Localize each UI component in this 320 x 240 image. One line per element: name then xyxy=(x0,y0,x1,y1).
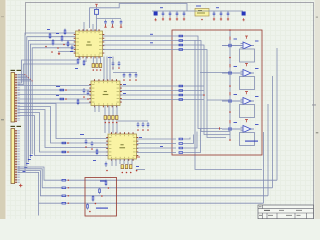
wire xyxy=(27,37,76,166)
connector bottom marker xyxy=(19,184,22,187)
junction xyxy=(229,111,231,113)
label xyxy=(30,155,33,156)
wire xyxy=(276,48,278,180)
ladder net label xyxy=(96,208,108,209)
wire xyxy=(152,10,243,12)
wire xyxy=(18,116,109,156)
capacitor C3 xyxy=(120,20,123,26)
ground xyxy=(169,17,171,20)
capacitor C8 xyxy=(213,11,216,16)
label xyxy=(123,84,126,85)
label xyxy=(136,157,140,158)
junction xyxy=(68,203,69,204)
label xyxy=(24,167,27,168)
op-amp U7 xyxy=(241,70,255,77)
op-amp U6 xyxy=(241,42,255,49)
wire xyxy=(109,57,111,81)
label xyxy=(150,42,153,43)
junction xyxy=(129,79,131,81)
label xyxy=(56,33,59,34)
sheet left margin strip xyxy=(0,0,6,219)
ground xyxy=(220,17,222,20)
frame tick right xyxy=(312,104,316,107)
junction xyxy=(229,85,231,87)
junction xyxy=(112,122,114,124)
ground xyxy=(183,17,185,20)
junction xyxy=(93,69,95,71)
resistor xyxy=(49,33,51,40)
wire xyxy=(120,85,204,87)
resistor xyxy=(62,179,66,181)
feedback loop wire xyxy=(240,77,255,90)
capacitor xyxy=(71,45,74,51)
connector J1 segment A xyxy=(11,73,17,123)
label xyxy=(75,68,78,69)
resistor xyxy=(179,85,183,87)
junction xyxy=(106,170,108,172)
ground xyxy=(213,17,215,20)
junction xyxy=(135,79,137,81)
junction xyxy=(203,94,205,96)
wire xyxy=(120,94,204,96)
op-amp U9 xyxy=(241,126,255,133)
junction xyxy=(95,203,97,205)
wire xyxy=(18,171,63,196)
wire xyxy=(18,98,92,100)
resistor xyxy=(52,39,54,46)
wire xyxy=(267,104,269,196)
wire xyxy=(98,106,100,113)
label xyxy=(70,51,73,52)
resistor xyxy=(179,90,183,92)
label xyxy=(47,29,50,30)
junction xyxy=(108,187,110,189)
wire xyxy=(18,94,92,96)
label xyxy=(255,41,259,42)
wire xyxy=(103,36,223,129)
resistor xyxy=(62,142,66,144)
capacitor xyxy=(137,122,140,128)
capacitor xyxy=(118,61,121,67)
wire xyxy=(111,159,113,166)
wire xyxy=(183,132,197,149)
capacitor xyxy=(147,122,150,128)
wire xyxy=(96,16,98,31)
wire xyxy=(92,57,94,64)
feedback loop wire xyxy=(240,49,255,62)
junction xyxy=(116,122,118,124)
label xyxy=(150,34,153,35)
wire xyxy=(66,202,264,204)
resistor xyxy=(179,147,183,149)
junction xyxy=(96,69,98,71)
label xyxy=(216,7,219,8)
junction xyxy=(108,122,110,124)
ground xyxy=(242,18,244,21)
ground xyxy=(58,52,60,55)
wire xyxy=(137,138,177,140)
wire xyxy=(120,99,204,101)
junction xyxy=(91,148,93,150)
junction xyxy=(87,98,89,100)
wire xyxy=(79,57,81,61)
junction xyxy=(67,151,69,153)
voltage regulator U5 xyxy=(195,9,209,17)
label xyxy=(196,6,201,7)
wire xyxy=(118,120,148,122)
label xyxy=(136,166,139,167)
ground xyxy=(176,17,178,20)
wire xyxy=(38,203,40,215)
label xyxy=(160,146,163,147)
junction xyxy=(85,146,87,148)
junction xyxy=(101,195,103,197)
wire xyxy=(207,99,228,101)
label xyxy=(234,94,238,95)
capacitor xyxy=(135,73,138,79)
bias tick xyxy=(229,92,231,95)
label xyxy=(80,134,84,135)
wire xyxy=(112,57,114,71)
wire xyxy=(103,57,105,81)
wire xyxy=(18,60,78,83)
series capacitor row 2 xyxy=(222,71,242,74)
resistor xyxy=(179,44,183,46)
capacitor xyxy=(83,88,86,94)
wire xyxy=(183,129,201,153)
ground xyxy=(154,18,156,21)
wire xyxy=(113,72,137,74)
wire xyxy=(18,74,26,76)
wire xyxy=(85,57,87,63)
junction xyxy=(67,142,69,144)
wire xyxy=(18,85,92,87)
wire xyxy=(103,50,227,138)
margin tick left xyxy=(1,119,4,120)
wire xyxy=(32,48,75,154)
junction xyxy=(122,172,124,174)
resistor xyxy=(60,98,64,100)
series capacitor row 4 xyxy=(222,127,242,130)
capacitor C10 xyxy=(227,11,230,16)
resistor xyxy=(77,58,79,65)
wire xyxy=(25,33,76,170)
wire xyxy=(108,106,110,134)
wire xyxy=(83,22,85,31)
junction xyxy=(136,170,138,172)
wire xyxy=(18,64,78,85)
wire xyxy=(18,167,63,180)
capacitor C2 xyxy=(111,20,114,26)
resistor xyxy=(64,29,66,36)
junction xyxy=(30,79,31,80)
wire xyxy=(30,44,75,158)
junction xyxy=(229,29,231,31)
resistor xyxy=(62,187,66,189)
junction xyxy=(25,74,26,75)
wire xyxy=(183,135,194,144)
net label xyxy=(245,141,258,142)
label xyxy=(139,137,142,138)
junction xyxy=(123,79,125,81)
junction xyxy=(100,69,102,71)
junction xyxy=(63,44,65,46)
label xyxy=(56,86,60,87)
connector J1 segment B xyxy=(11,129,17,184)
ladder resistor R23 xyxy=(87,203,89,210)
junction xyxy=(68,180,69,181)
wire xyxy=(127,159,129,165)
resistor xyxy=(179,35,183,37)
resistor xyxy=(179,138,183,140)
net label left xyxy=(100,181,106,182)
wire xyxy=(115,159,117,166)
margin mark right upper xyxy=(316,17,318,18)
junction xyxy=(118,67,120,69)
diode D1 (blue square) xyxy=(154,12,158,16)
wire xyxy=(29,40,76,162)
resistor xyxy=(61,35,63,42)
IC U1 xyxy=(74,29,105,58)
label xyxy=(108,57,112,58)
wire xyxy=(137,143,177,145)
wire xyxy=(195,40,262,170)
wire xyxy=(92,24,94,31)
junction xyxy=(89,211,91,213)
wire xyxy=(96,57,98,64)
resistor xyxy=(62,195,66,197)
junction xyxy=(142,129,144,131)
label xyxy=(160,7,163,8)
diode D2 (blue square) xyxy=(242,12,246,16)
bias column wire xyxy=(229,30,231,140)
connector J1B reference label xyxy=(11,126,16,127)
connector J1A pin stub wires xyxy=(17,74,20,120)
junction xyxy=(65,89,67,91)
ladder resistor R21 xyxy=(99,188,101,195)
bias tick xyxy=(229,120,231,123)
series capacitor row 3 xyxy=(222,99,242,102)
wire xyxy=(103,45,231,135)
junction xyxy=(126,172,128,174)
wire xyxy=(119,159,121,164)
resistor xyxy=(179,152,183,154)
capacitor C9 xyxy=(220,11,223,16)
resistor pack RP1 xyxy=(92,64,102,68)
junction xyxy=(229,57,231,59)
capacitor C1 xyxy=(104,20,107,26)
bias tick xyxy=(229,37,231,40)
label xyxy=(26,163,29,164)
ladder resistor R22 xyxy=(92,195,94,202)
bias tick xyxy=(229,64,231,67)
junction xyxy=(45,46,47,48)
resistor ladder box xyxy=(85,178,117,217)
junction xyxy=(68,195,69,196)
capacitor C7 xyxy=(183,11,186,16)
resistor xyxy=(77,99,79,106)
junction xyxy=(130,172,132,174)
wire xyxy=(66,187,273,189)
series capacitor row 1 xyxy=(222,44,242,47)
margin zone letter right xyxy=(316,132,319,133)
net wire dark red loop xyxy=(172,30,262,155)
junction xyxy=(147,129,149,131)
wire xyxy=(106,57,108,81)
junction xyxy=(229,139,231,141)
wire xyxy=(18,169,63,188)
junction xyxy=(112,67,114,69)
label xyxy=(255,68,259,69)
ground xyxy=(162,17,164,20)
title block xyxy=(258,205,314,219)
wire xyxy=(18,107,109,144)
resistor xyxy=(62,202,66,204)
junction xyxy=(105,122,107,124)
resistor pack RP3 xyxy=(121,165,132,169)
wire xyxy=(90,4,187,29)
resistor xyxy=(96,149,98,156)
capacitor xyxy=(105,162,108,168)
junction xyxy=(32,80,33,81)
op-amp U8 xyxy=(241,98,255,105)
label xyxy=(93,160,96,161)
capacitor xyxy=(142,122,145,128)
power flag xyxy=(245,64,248,67)
wire xyxy=(103,41,231,132)
wire xyxy=(18,80,33,82)
wire xyxy=(104,106,106,134)
wire xyxy=(18,77,29,79)
wire xyxy=(18,75,27,77)
junction xyxy=(57,47,59,49)
capacitor xyxy=(129,73,132,79)
wire xyxy=(18,78,31,80)
junction xyxy=(137,129,139,131)
wire xyxy=(66,179,277,181)
label xyxy=(234,66,238,67)
wire xyxy=(272,76,274,188)
junction xyxy=(28,77,29,78)
wire xyxy=(131,159,133,165)
wire xyxy=(58,51,76,53)
wire xyxy=(137,152,177,154)
wire head tick xyxy=(219,127,221,130)
resistor xyxy=(179,143,183,145)
ground xyxy=(227,17,229,20)
label xyxy=(56,95,59,96)
wire xyxy=(18,102,92,104)
capacitor C4 xyxy=(162,11,165,16)
resistor xyxy=(83,60,85,67)
wire xyxy=(18,89,92,91)
label xyxy=(123,93,126,94)
resistor xyxy=(179,49,183,51)
junction xyxy=(65,98,67,100)
power flag xyxy=(245,120,248,123)
wire xyxy=(136,169,145,171)
label xyxy=(234,122,238,123)
junction xyxy=(201,19,203,21)
junction xyxy=(26,76,27,77)
power flag xyxy=(245,36,248,39)
label xyxy=(255,124,259,125)
resistor xyxy=(179,94,183,96)
resistor xyxy=(67,41,69,48)
feedback loop wire xyxy=(240,133,255,146)
resistor xyxy=(62,151,66,153)
label xyxy=(255,96,259,97)
resistor xyxy=(60,89,64,91)
capacitor xyxy=(112,61,115,67)
wire xyxy=(183,138,190,140)
junction xyxy=(51,51,53,53)
ground stub xyxy=(111,24,113,27)
wire xyxy=(137,147,177,149)
margin tick left upper xyxy=(1,16,4,17)
IC U2 xyxy=(89,79,122,107)
wire xyxy=(100,57,102,64)
wire xyxy=(94,106,96,113)
resistor xyxy=(179,99,183,101)
wire xyxy=(116,106,118,134)
capacitor xyxy=(85,139,88,145)
capacitor xyxy=(91,141,94,147)
ferrite bead L1 xyxy=(94,7,98,16)
wire xyxy=(18,113,109,153)
wire xyxy=(200,72,232,74)
IC U3 xyxy=(106,132,138,161)
connector J1A reference label xyxy=(11,70,16,71)
wire xyxy=(66,195,268,197)
wire xyxy=(123,159,125,164)
ladder resistor R20 xyxy=(105,180,107,187)
label xyxy=(28,159,31,160)
wire xyxy=(97,18,122,20)
capacitor xyxy=(87,90,90,96)
sheet right margin strip xyxy=(315,0,320,219)
resistor pack RP2 xyxy=(104,116,118,120)
power flag xyxy=(245,92,248,95)
capacitor xyxy=(123,73,126,79)
wire xyxy=(18,172,63,203)
wire xyxy=(263,132,265,203)
power flag VCC xyxy=(95,4,98,7)
connector J1B pin stub wires xyxy=(17,130,20,182)
label xyxy=(234,39,238,40)
junction xyxy=(68,187,69,188)
junction xyxy=(83,96,85,98)
ground stub xyxy=(120,24,122,27)
wire xyxy=(18,104,109,139)
capacitor C6 xyxy=(176,11,179,16)
feedback loop wire xyxy=(240,105,255,118)
wire xyxy=(112,106,114,134)
capacitor C5 xyxy=(169,11,172,16)
resistor xyxy=(179,40,183,42)
label xyxy=(23,171,26,172)
wire xyxy=(120,90,204,92)
ground stub xyxy=(104,24,106,27)
wire xyxy=(18,110,109,148)
